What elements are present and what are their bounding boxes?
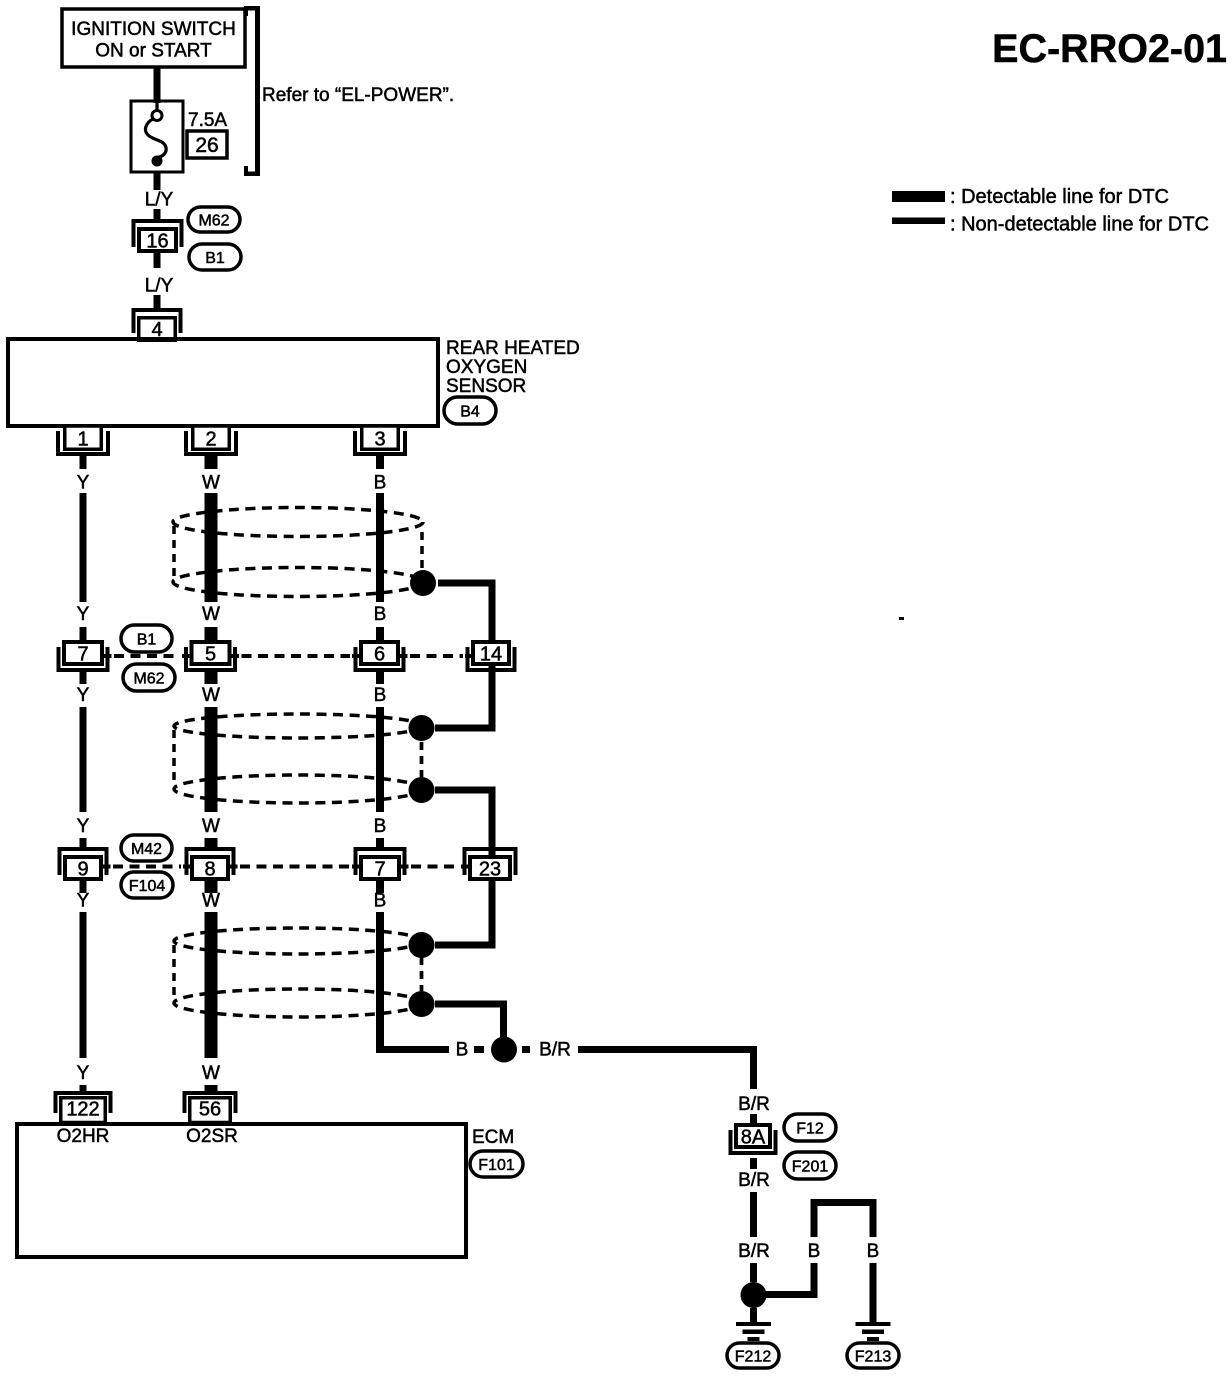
svg-text:IGNITION SWITCH: IGNITION SWITCH: [71, 19, 236, 40]
wire stub W above row A: [205, 627, 218, 640]
wire segment 3 x=380: [376, 912, 384, 1046]
sensor label: [446, 338, 580, 397]
wire label Y row2: [77, 604, 90, 625]
connector 23 row B: [465, 849, 516, 881]
wire label B row4: [374, 816, 387, 837]
svg-text:SENSOR: SENSOR: [446, 376, 526, 397]
wire stub W above row B: [205, 838, 218, 849]
wire B through cylinder 1: [376, 493, 384, 602]
ground F213 symbol: [856, 1322, 891, 1341]
wire dash before junction: [474, 1046, 484, 1053]
wire fuse to L/Y: [154, 172, 161, 190]
junction dot B/B-R: [491, 1037, 517, 1063]
svg-text:Y: Y: [77, 473, 90, 494]
svg-text:F104: F104: [129, 878, 166, 895]
connector B1 oval row A: [121, 625, 172, 652]
wire stub Y above row A: [80, 627, 87, 640]
svg-text:B: B: [456, 1040, 469, 1061]
connector 8 row B: [187, 849, 234, 881]
connector F104 oval row B: [121, 872, 173, 898]
svg-text:W: W: [202, 685, 220, 706]
wire label B left branch: [808, 1241, 821, 1262]
svg-text:B: B: [374, 604, 387, 625]
dashed link row A 6-14: [410, 654, 463, 658]
wire label B/R lower: [738, 1241, 770, 1262]
svg-text:W: W: [202, 473, 220, 494]
svg-text:L/Y: L/Y: [145, 190, 174, 211]
wire label B/R inline: [539, 1040, 571, 1061]
connector 14 row A: [468, 642, 515, 670]
connector 6 row A: [356, 642, 404, 670]
wire B branch right down: [870, 1203, 877, 1238]
svg-text:8A: 8A: [741, 1127, 766, 1149]
svg-text:7: 7: [77, 644, 88, 666]
wire label Y row1: [77, 473, 90, 494]
svg-text:ECM: ECM: [472, 1127, 514, 1148]
connector B1 oval upper: [189, 244, 241, 270]
wire junction to B branch: [766, 1263, 818, 1298]
connector 7 row A: [59, 642, 108, 670]
connector B4 oval: [444, 397, 496, 424]
wire dash after junction: [522, 1046, 530, 1053]
wire B through cylinder 2: [376, 707, 384, 812]
ecm label: [472, 1127, 514, 1148]
connector 7 row B: [356, 849, 405, 881]
svg-text:M62: M62: [133, 670, 164, 687]
svg-text:B: B: [374, 816, 387, 837]
wire stub pin to label B: [376, 456, 384, 469]
wire junction 3b to B/R junction: [435, 1001, 507, 1050]
svg-text:122: 122: [66, 1099, 99, 1121]
wire stub B above row A: [376, 627, 384, 640]
svg-text:3: 3: [374, 429, 385, 451]
wire W segment 2: [205, 707, 218, 812]
wire W through cylinder 1: [205, 493, 218, 602]
dashed link row B ticks: [103, 865, 469, 869]
svg-text:B: B: [374, 473, 387, 494]
wire stub Y below row B: [80, 880, 87, 893]
connector F201 oval: [784, 1152, 836, 1179]
connector M62 oval row A: [123, 664, 175, 691]
junction dot 3b: [409, 991, 435, 1017]
svg-text:B1: B1: [205, 250, 225, 267]
wire Y segment 1: [80, 493, 87, 602]
svg-text:7.5A: 7.5A: [188, 110, 227, 131]
svg-text:Y: Y: [77, 685, 90, 706]
wire stub pin to label Y: [80, 456, 87, 469]
svg-text:6: 6: [374, 644, 385, 666]
wire B/R horizontal: [578, 1046, 757, 1053]
shield cylinder 1 bottom ellipse: [173, 568, 423, 597]
dashed link dots 3a-3b: [420, 957, 424, 991]
wire label B/R below 8A: [738, 1170, 770, 1191]
wire stub B below row A: [376, 672, 384, 684]
svg-text:O2HR: O2HR: [57, 1126, 110, 1147]
connector F212 oval: [727, 1343, 779, 1368]
wire label B row3: [374, 685, 387, 706]
junction dot 2b: [409, 777, 435, 803]
wire stub W below row A: [205, 672, 218, 684]
connector 16: [134, 221, 182, 253]
svg-text:B/R: B/R: [539, 1040, 571, 1061]
wire W through cylinder 3: [205, 912, 218, 1058]
wire stub above 8A: [750, 1114, 757, 1124]
svg-text:Refer to “EL-POWER”.: Refer to “EL-POWER”.: [262, 85, 454, 106]
junction dot 2a: [409, 715, 435, 741]
wire label W bottom: [202, 1063, 220, 1084]
wire B to ground F213: [870, 1263, 877, 1322]
wire segment 3 x=83: [80, 912, 87, 1058]
svg-text:ON or START: ON or START: [95, 41, 212, 62]
ground F212 symbol: [736, 1322, 771, 1341]
wire label Y row3: [77, 685, 90, 706]
wire L/Y to connector 16: [154, 209, 161, 221]
wire label B row5: [374, 891, 387, 912]
svg-text:B: B: [808, 1241, 821, 1262]
shield cylinder 1 top ellipse: [173, 508, 423, 537]
shield cylinder 1 left edge: [172, 526, 176, 578]
wire label B/R above 8A: [738, 1094, 770, 1115]
wire W through cylinder 2: [205, 707, 218, 812]
wire label W row3: [202, 685, 220, 706]
junction dot 3a: [409, 932, 435, 958]
shield cylinder 2 left edge: [172, 730, 176, 785]
svg-text:5: 5: [205, 644, 216, 666]
shield cylinder 2 right edge: [420, 742, 424, 777]
shield cylinder 1 right edge: [420, 532, 424, 570]
wire Y segment 2: [80, 707, 87, 812]
wire stub Y above row B: [80, 838, 87, 849]
shield cylinder 3 left edge: [172, 945, 176, 999]
legend detectable line symbol: [892, 191, 945, 202]
wire B to ground run corner: [377, 1017, 450, 1053]
wire W segment 1: [205, 493, 218, 602]
dashed link row B 8-7: [240, 865, 350, 869]
wire label B row1: [374, 473, 387, 494]
connector F12 oval: [784, 1114, 836, 1141]
pin 1: [58, 426, 108, 454]
svg-text:L/Y: L/Y: [145, 276, 174, 297]
svg-text:F212: F212: [735, 1348, 772, 1365]
wire L/Y to pin 4: [154, 295, 161, 310]
wire B branch top: [811, 1199, 877, 1206]
wire label W row5: [202, 891, 220, 912]
svg-text:2: 2: [205, 429, 216, 451]
svg-text:O2SR: O2SR: [186, 1126, 238, 1147]
svg-text:Y: Y: [77, 891, 90, 912]
connector M62 oval upper: [188, 207, 240, 232]
svg-text:Y: Y: [77, 604, 90, 625]
connector 5 row A: [186, 642, 235, 670]
wire junction to ground F212: [750, 1308, 757, 1322]
wire label Y row5: [77, 891, 90, 912]
pin 56: [185, 1093, 236, 1123]
svg-text:F201: F201: [792, 1158, 829, 1175]
refer bracket: [244, 6, 260, 176]
dashed link row A ticks: [104, 654, 472, 658]
connector 9 row B: [60, 849, 107, 881]
wire B/R middle: [750, 1192, 757, 1237]
svg-text:Y: Y: [77, 1063, 90, 1084]
ignition switch box: [62, 9, 245, 67]
connector F213 oval: [847, 1343, 899, 1368]
wire junction 2a horizontal: [435, 725, 490, 732]
wire label B right branch: [867, 1241, 880, 1262]
connector 8A: [731, 1125, 776, 1153]
dashed link dots 2a-2b: [420, 742, 424, 777]
wire B through cylinder 3: [376, 912, 384, 1046]
svg-text:: Non-detectable line for DTC: : Non-detectable line for DTC: [950, 214, 1209, 236]
svg-text:9: 9: [77, 859, 88, 881]
svg-text:W: W: [202, 891, 220, 912]
svg-text:W: W: [202, 604, 220, 625]
svg-text:B/R: B/R: [738, 1241, 770, 1262]
svg-text:56: 56: [199, 1099, 221, 1121]
legend non-detectable line symbol: [892, 218, 945, 225]
wire label B row2: [374, 604, 387, 625]
dashed link row A 7-5: [114, 654, 180, 658]
dashed link row B 9-8: [113, 865, 181, 869]
wire B/R down to 8A: [750, 1046, 757, 1089]
wire stub Y to pin 122: [80, 1085, 87, 1092]
wire B branch left up: [811, 1199, 818, 1237]
wire B segment 2: [376, 707, 384, 812]
svg-text:B4: B4: [460, 403, 480, 420]
refer to EL-POWER text: [262, 85, 454, 106]
pin 122: [56, 1093, 111, 1123]
wire stub below 8A: [750, 1158, 757, 1169]
fuse rating 7.5A: [188, 110, 227, 131]
wire stub W below row B: [205, 880, 218, 893]
connector F101 oval: [470, 1151, 523, 1177]
wire label W row4: [202, 816, 220, 837]
ecm pin label O2HR: [57, 1126, 110, 1147]
fuse number 26 box: [187, 131, 227, 158]
title EC-RRO2-01: [992, 27, 1227, 71]
wire label W row1: [202, 473, 220, 494]
ecm pin label O2SR: [186, 1126, 238, 1147]
svg-text:OXYGEN: OXYGEN: [446, 357, 527, 378]
wire B segment 1: [376, 493, 384, 602]
svg-text:F101: F101: [478, 1157, 515, 1174]
legend non-detectable line text: [950, 214, 1209, 236]
dashed link row B 7-23: [411, 865, 459, 869]
wire label Y bottom: [77, 1063, 90, 1084]
junction dot 1: [410, 570, 436, 596]
wire label Y row4: [77, 816, 90, 837]
svg-text:W: W: [202, 1063, 220, 1084]
wire stub B above row B: [376, 838, 384, 849]
svg-text:M42: M42: [131, 841, 162, 858]
wire label L/Y upper: [145, 190, 174, 211]
ecm box: [17, 1124, 466, 1257]
wire label B inline: [456, 1040, 469, 1061]
rear heated oxygen sensor box: [8, 339, 438, 426]
pin 4: [134, 310, 181, 341]
svg-text:14: 14: [480, 644, 502, 666]
svg-text:23: 23: [479, 859, 501, 881]
svg-text:B/R: B/R: [738, 1170, 770, 1191]
svg-text:F213: F213: [855, 1348, 892, 1365]
dashed link row A 5-6: [242, 654, 351, 658]
wire stub Y below row A: [80, 672, 87, 684]
wire ignition to fuse: [154, 67, 161, 103]
svg-text:W: W: [202, 816, 220, 837]
svg-text:B: B: [867, 1241, 880, 1262]
speck: [899, 617, 904, 620]
svg-text:Y: Y: [77, 816, 90, 837]
svg-text:1: 1: [77, 429, 88, 451]
svg-text:B1: B1: [137, 631, 157, 648]
wire stub B below row B: [376, 880, 384, 893]
svg-text:: Detectable line for DTC: : Detectable line for DTC: [950, 186, 1169, 208]
svg-text:EC-RRO2-01: EC-RRO2-01: [992, 27, 1227, 71]
svg-text:B/R: B/R: [738, 1094, 770, 1115]
wire stub W to pin 56: [205, 1085, 218, 1092]
pin 2: [186, 426, 236, 454]
shield cylinder 3 top ellipse: [174, 928, 422, 954]
wire segment 3 x=211: [205, 912, 218, 1058]
wire label L/Y lower: [145, 276, 174, 297]
wire stub above ground junction: [750, 1263, 757, 1282]
svg-text:B: B: [374, 685, 387, 706]
svg-text:16: 16: [146, 231, 168, 253]
svg-text:B: B: [374, 891, 387, 912]
wire junction 3a horizontal: [435, 942, 490, 949]
wire connector 16 to L/Y: [154, 253, 161, 268]
shield cylinder 3 right edge: [420, 957, 424, 991]
fuse 26 box: [131, 101, 183, 172]
legend detectable line text: [950, 186, 1169, 208]
svg-text:REAR HEATED: REAR HEATED: [446, 338, 580, 359]
pin 3: [355, 426, 405, 454]
svg-text:7: 7: [374, 859, 385, 881]
svg-text:26: 26: [195, 134, 218, 157]
shield cylinder 2 bottom ellipse: [174, 775, 422, 803]
svg-text:F12: F12: [796, 1120, 824, 1137]
wire junction 2b to connector 23: [435, 787, 492, 949]
svg-text:M62: M62: [198, 212, 229, 229]
wire stub pin to label W: [205, 456, 218, 469]
svg-text:8: 8: [204, 859, 215, 881]
junction dot ground: [741, 1282, 767, 1308]
shield cylinder 2 top ellipse: [174, 714, 422, 738]
connector M42 oval row B: [121, 835, 172, 861]
shield cylinder 3 bottom ellipse: [174, 989, 422, 1017]
wire from junction 1 to connector 14: [438, 580, 492, 732]
wire label W row2: [202, 604, 220, 625]
